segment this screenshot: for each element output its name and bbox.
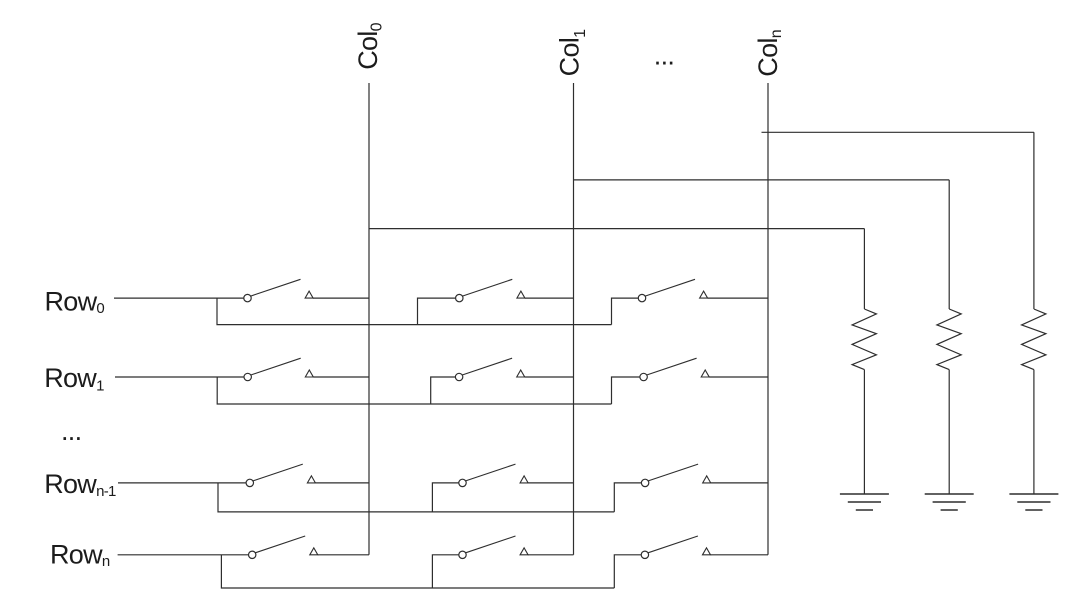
svg-text:Rown: Rown xyxy=(50,540,110,571)
wire Rown-1 stub xyxy=(118,482,246,484)
ground GND3 xyxy=(1009,494,1058,510)
wire Row1 bus xyxy=(217,377,611,404)
switch Row0-Col0 xyxy=(244,279,369,302)
switch Rown-1-Col1 xyxy=(459,464,574,486)
wire Rown-1 riser to switch 2 xyxy=(432,483,458,512)
wire Row0 bus xyxy=(217,298,612,325)
wire Col1 column xyxy=(573,83,575,555)
wire Rown bus xyxy=(221,555,614,588)
wire Col1 to R2 xyxy=(574,179,950,181)
wire Row0 stub xyxy=(114,297,244,299)
svg-text:...: ... xyxy=(61,416,81,446)
wire Row1 stub xyxy=(115,376,244,378)
wire Row0 riser to switch 3 xyxy=(612,298,639,325)
switch Rown-Col0 xyxy=(249,536,370,559)
switch Rown-Col1 xyxy=(459,536,574,559)
wire Col0 column xyxy=(368,83,370,555)
switch Row0-Coln xyxy=(638,279,768,302)
switch Row0-Col1 xyxy=(456,279,574,302)
wire Rown-1 bus xyxy=(218,483,614,512)
resistor R3 xyxy=(1022,132,1046,494)
resistor R1 xyxy=(852,229,876,494)
wire Coln column xyxy=(767,83,769,555)
wire Rown-1 riser to switch 3 xyxy=(614,483,641,512)
svg-text:...: ... xyxy=(654,41,674,71)
switch Row1-Col0 xyxy=(244,358,369,380)
wire Col0 to R1 xyxy=(369,228,864,230)
wire Row1 riser to switch 2 xyxy=(431,377,456,404)
switch Row1-Coln xyxy=(640,358,768,380)
ground GND2 xyxy=(925,494,974,510)
wire Rown riser to switch 3 xyxy=(614,555,641,588)
wire Row0 riser to switch 2 xyxy=(418,298,456,325)
wire Coln to R3 xyxy=(762,131,1034,133)
switch Rown-Coln xyxy=(641,536,768,559)
switch Row1-Col1 xyxy=(455,358,573,380)
switch Rown-1-Coln xyxy=(641,464,768,486)
wire Rown riser to switch 2 xyxy=(432,555,458,588)
switch Rown-1-Col0 xyxy=(246,464,369,486)
svg-text:Row1: Row1 xyxy=(44,363,104,395)
svg-text:Row0: Row0 xyxy=(45,287,105,318)
ground GND1 xyxy=(840,494,889,510)
resistor R2 xyxy=(937,180,961,494)
wire Row1 riser to switch 3 xyxy=(612,377,640,404)
wire Rown stub xyxy=(118,554,249,556)
